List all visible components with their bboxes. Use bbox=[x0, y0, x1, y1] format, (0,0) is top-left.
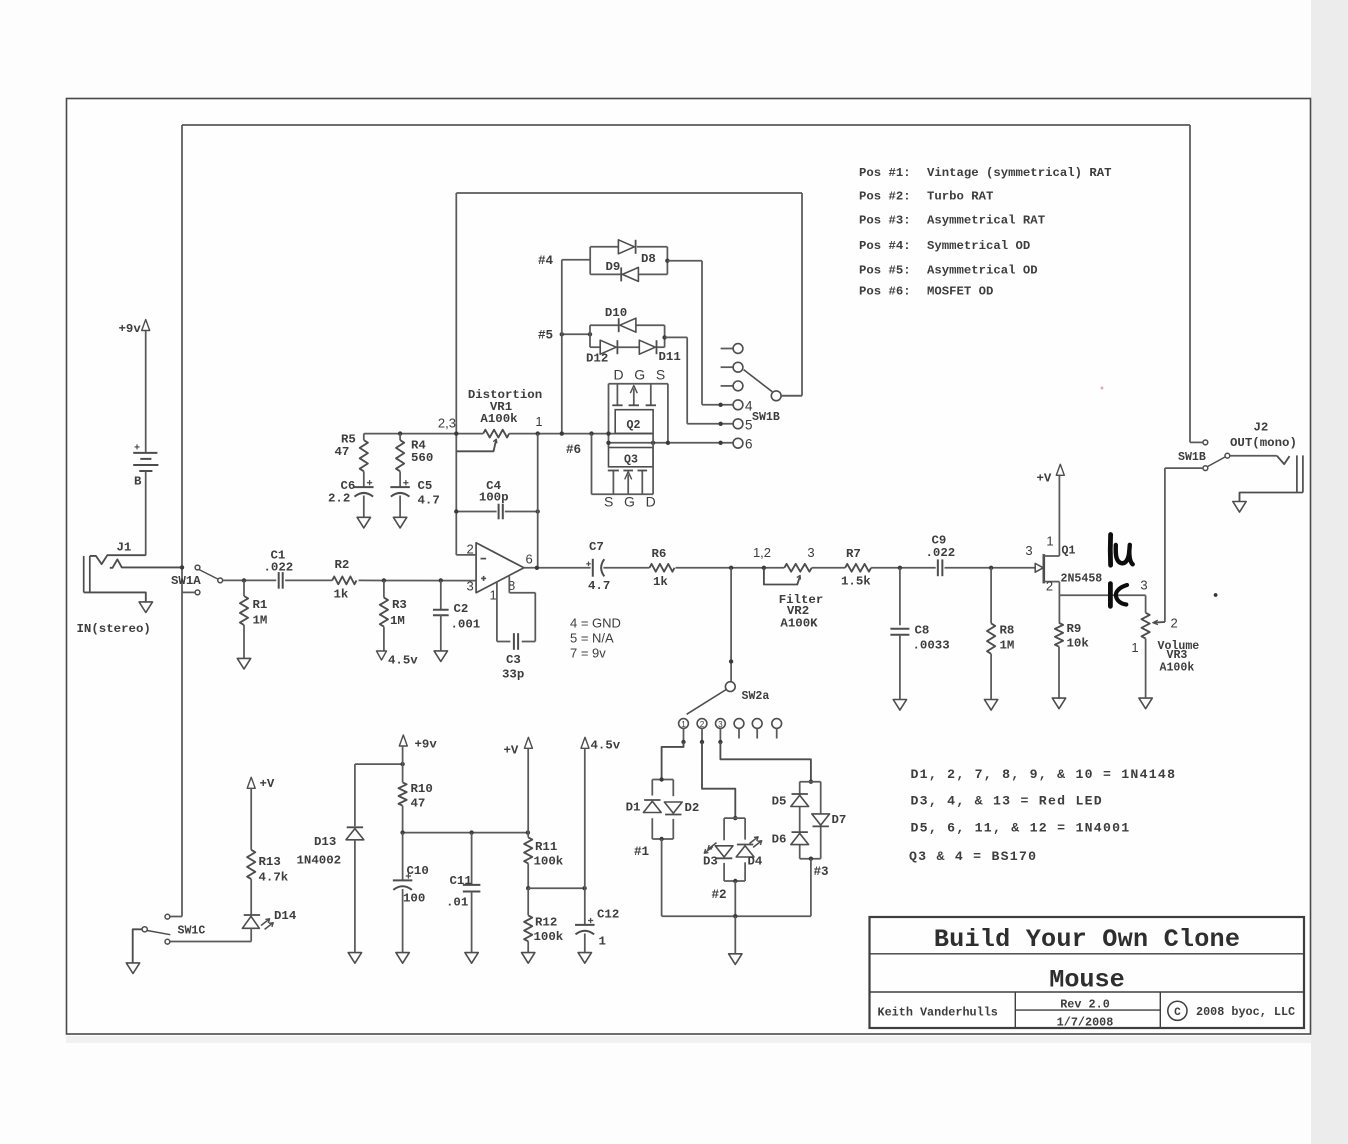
clipper network 3 box bbox=[800, 781, 821, 783]
ground at clipper rail bbox=[729, 954, 742, 965]
svg-text:R1: R1 bbox=[253, 598, 268, 612]
svg-text:D6: D6 bbox=[772, 833, 787, 847]
jack J2 bbox=[1277, 456, 1290, 464]
node Q2 left at node A bbox=[606, 431, 610, 435]
svg-text:1.5k: 1.5k bbox=[841, 575, 871, 589]
node VR1 pin 2,3 bbox=[454, 431, 458, 435]
svg-text:C10: C10 bbox=[407, 864, 429, 878]
wire D14 to SW1C bbox=[250, 928, 252, 941]
svg-text:6: 6 bbox=[526, 552, 533, 567]
svg-text:SW1B: SW1B bbox=[1178, 451, 1206, 464]
node R4 top bbox=[398, 431, 402, 435]
capacitor C9 .022 bbox=[937, 559, 939, 576]
svg-text:1: 1 bbox=[1131, 640, 1138, 655]
node on SW2a branch bbox=[729, 659, 733, 663]
svg-text:1: 1 bbox=[490, 588, 497, 603]
node VR1 pin 1 bbox=[536, 431, 540, 435]
svg-text:Q2: Q2 bbox=[627, 419, 641, 432]
svg-text:.0033: .0033 bbox=[913, 639, 950, 653]
resistor R11 100k bbox=[524, 837, 532, 863]
ground at R12 bbox=[522, 953, 535, 964]
svg-text:OUT(mono): OUT(mono) bbox=[1230, 436, 1297, 450]
svg-text:1M: 1M bbox=[253, 614, 268, 628]
node C8 top bbox=[898, 566, 902, 570]
svg-text:A100K: A100K bbox=[780, 617, 818, 631]
capacitor C1 .022 bbox=[278, 572, 280, 589]
ground at R1 bbox=[237, 658, 250, 669]
svg-text:C: C bbox=[1174, 1007, 1181, 1019]
svg-text:D8: D8 bbox=[641, 252, 656, 266]
svg-text:1: 1 bbox=[599, 935, 606, 949]
svg-text:47: 47 bbox=[411, 797, 426, 811]
capacitor C8 .0033 bbox=[899, 568, 901, 626]
node R3 top bbox=[382, 578, 386, 582]
wire network5 to SW1B-5 bbox=[665, 336, 688, 338]
svg-text:Asymmetrical OD: Asymmetrical OD bbox=[927, 264, 1038, 278]
clipper network 5 box bbox=[589, 325, 591, 347]
node network2 top bbox=[733, 816, 737, 820]
wire to network #4 bbox=[562, 259, 590, 261]
resistor R10 47 bbox=[399, 782, 407, 805]
ground at D13 bbox=[348, 953, 361, 964]
wire Q1 source node bbox=[1059, 594, 1145, 596]
svg-text:C12: C12 bbox=[597, 908, 619, 922]
wire SW1B contact 4 bbox=[702, 404, 733, 406]
wire op-amp node A rail bbox=[364, 433, 483, 435]
page border frame bbox=[67, 99, 1311, 1035]
svg-text:100k: 100k bbox=[534, 930, 564, 944]
node #6 dots bbox=[606, 441, 610, 445]
svg-text:SW1B: SW1B bbox=[752, 411, 780, 424]
svg-text:MOSFET OD: MOSFET OD bbox=[927, 285, 993, 299]
ground at C10 bbox=[396, 953, 409, 964]
svg-text:Pos #2:: Pos #2: bbox=[859, 190, 911, 204]
transistor Q2 bracket bbox=[609, 383, 668, 385]
diode D7 bbox=[812, 814, 830, 825]
node J1 tip junction bbox=[180, 565, 184, 569]
resistor R1 1M bbox=[243, 580, 245, 596]
wire network2 to bottom rail bbox=[734, 881, 736, 916]
svg-text:.001: .001 bbox=[451, 618, 481, 632]
wire op-amp pin1 pin8 loop with C3 bbox=[496, 583, 498, 642]
wire divider node to C12 bbox=[528, 887, 584, 889]
resistor R12 100k bbox=[527, 888, 529, 915]
node +9V bbox=[400, 762, 404, 766]
capacitor C12 1 electrolytic bbox=[584, 748, 586, 925]
diode D1 bbox=[643, 801, 661, 812]
svg-text:10k: 10k bbox=[1067, 637, 1090, 651]
svg-text:.022: .022 bbox=[926, 546, 956, 560]
node SW2a contact1 bbox=[681, 740, 685, 744]
svg-text:100p: 100p bbox=[479, 491, 509, 505]
resistor R13 4.7k bbox=[250, 788, 252, 850]
node network4 right bbox=[665, 259, 669, 263]
svg-text:2,3: 2,3 bbox=[438, 416, 456, 431]
wire rail left vertical to op-amp pin2 bbox=[455, 193, 457, 555]
node C12 top bbox=[582, 886, 586, 890]
wire network4 to SW1B-4 bbox=[667, 260, 702, 262]
svg-text:C7: C7 bbox=[589, 540, 604, 554]
transistor Q2 pins bbox=[616, 384, 618, 406]
node VR2 left 1,2 bbox=[762, 566, 766, 570]
transistor Q3 bottom bracket bbox=[592, 493, 654, 495]
node R11 top bbox=[526, 830, 530, 834]
svg-text:Q3: Q3 bbox=[624, 454, 638, 467]
diode D10 bbox=[620, 318, 636, 332]
svg-text:Q1: Q1 bbox=[1062, 545, 1076, 558]
+V supply at Q1 bbox=[1056, 464, 1064, 475]
ground at R8 bbox=[984, 700, 997, 711]
wire R10 node rail bbox=[403, 832, 528, 834]
svg-text:1,2: 1,2 bbox=[753, 545, 771, 560]
svg-text:6: 6 bbox=[745, 437, 753, 452]
svg-text:C5: C5 bbox=[418, 479, 433, 493]
svg-text:R12: R12 bbox=[535, 916, 557, 930]
+V supply at R13 bbox=[247, 777, 255, 788]
wire contact3 to network3 bbox=[720, 742, 811, 782]
svg-text:IN(stereo): IN(stereo) bbox=[77, 622, 151, 636]
svg-text:.022: .022 bbox=[264, 561, 294, 575]
svg-text:#5: #5 bbox=[538, 329, 553, 343]
svg-text:2N5458: 2N5458 bbox=[1061, 573, 1103, 586]
svg-text:VR3: VR3 bbox=[1167, 649, 1188, 662]
transistor Q1 2N5458 bbox=[1035, 563, 1043, 572]
svg-text:D11: D11 bbox=[659, 350, 681, 364]
svg-text:R11: R11 bbox=[535, 840, 557, 854]
svg-text:+V: +V bbox=[504, 744, 519, 758]
svg-text:D4: D4 bbox=[748, 855, 763, 869]
wire D13 to +9V node bbox=[355, 763, 403, 765]
svg-text:Asymmetrical RAT: Asymmetrical RAT bbox=[927, 214, 1046, 228]
clipper network 4 box bbox=[589, 247, 591, 275]
wire battery negative lead bbox=[145, 471, 147, 555]
node SW2a contact3 bbox=[718, 740, 722, 744]
svg-text:Pos #5:: Pos #5: bbox=[859, 264, 911, 278]
node network3 top bbox=[809, 780, 813, 784]
node network1 bottom bbox=[659, 837, 663, 841]
svg-text:C11: C11 bbox=[450, 874, 472, 888]
diode D12 bbox=[600, 340, 616, 354]
wire rail right vertical to SW1B wiper bbox=[801, 193, 803, 396]
svg-text:SW2a: SW2a bbox=[742, 690, 770, 703]
svg-text:2: 2 bbox=[1171, 616, 1178, 631]
svg-text:+V: +V bbox=[260, 777, 275, 791]
svg-text:1M: 1M bbox=[390, 614, 405, 628]
svg-text:2: 2 bbox=[1046, 579, 1053, 594]
wire contact2 to network2 bbox=[702, 742, 735, 818]
wire J1 sleeve to ground bbox=[84, 592, 146, 602]
svg-text:33p: 33p bbox=[502, 668, 524, 682]
transistor Q3 pins bbox=[612, 471, 614, 495]
potentiometer VR1 Distortion A100k bbox=[483, 430, 509, 438]
svg-text:#3: #3 bbox=[814, 865, 829, 879]
wire bypass left vertical bbox=[181, 125, 183, 917]
svg-text:D14: D14 bbox=[274, 909, 297, 923]
wire contact1 to network1 bbox=[662, 742, 684, 780]
svg-text:D10: D10 bbox=[605, 306, 627, 320]
switch SW2a contacts bbox=[679, 719, 689, 729]
svg-text:#2: #2 bbox=[712, 888, 727, 902]
capacitor C11 .01 bbox=[471, 833, 473, 885]
svg-text:47: 47 bbox=[335, 445, 350, 459]
svg-text:C2: C2 bbox=[454, 602, 469, 616]
wire to VR3 pin3 bbox=[1145, 595, 1147, 613]
svg-text:D3: D3 bbox=[703, 855, 718, 869]
svg-text:1M: 1M bbox=[1000, 639, 1015, 653]
svg-text:4.5v: 4.5v bbox=[591, 739, 621, 753]
switch SW1B rotary contacts bbox=[721, 348, 733, 350]
resistor R4 560 bbox=[399, 434, 401, 441]
capacitor C10 100 electrolytic bbox=[402, 833, 404, 881]
wire battery positive lead bbox=[145, 331, 147, 453]
svg-text:1N4002: 1N4002 bbox=[297, 854, 342, 868]
diode D5 bbox=[791, 795, 809, 806]
svg-text:3: 3 bbox=[1140, 578, 1147, 593]
svg-text:SW1C: SW1C bbox=[178, 925, 206, 938]
switch SW2a wiper bbox=[725, 682, 735, 692]
svg-text:D12: D12 bbox=[586, 352, 608, 366]
ground at VR3 bbox=[1139, 698, 1152, 709]
handwritten dot bbox=[1214, 593, 1218, 597]
resistor R7 1.5k bbox=[845, 564, 871, 572]
svg-text:R8: R8 bbox=[1000, 624, 1015, 638]
capacitor C3 33p bbox=[513, 633, 515, 650]
svg-text:D5, 6, 11, & 12 = 1N4001: D5, 6, 11, & 12 = 1N4001 bbox=[911, 821, 1131, 836]
ground at J1 bbox=[139, 602, 152, 613]
svg-text:D1, 2, 7, 8, 9, & 10 = 1N4148: D1, 2, 7, 8, 9, & 10 = 1N4148 bbox=[911, 767, 1177, 782]
ground at C11 bbox=[465, 953, 478, 964]
svg-text:4.7k: 4.7k bbox=[259, 871, 289, 885]
node R1 top bbox=[242, 578, 246, 582]
node network5 right bbox=[662, 335, 666, 339]
svg-text:#1: #1 bbox=[634, 845, 650, 859]
node network3 bottom bbox=[809, 857, 813, 861]
node R8 top bbox=[989, 566, 993, 570]
wire C4 branch bbox=[456, 511, 496, 513]
svg-text:100: 100 bbox=[403, 892, 425, 906]
capacitor C2 .001 bbox=[440, 580, 442, 609]
svg-text:Pos #3:: Pos #3: bbox=[859, 214, 911, 228]
svg-text:Pos #6:: Pos #6: bbox=[859, 285, 911, 299]
node C4 left bbox=[454, 509, 458, 513]
svg-text:Mouse: Mouse bbox=[1049, 966, 1125, 995]
svg-text:3: 3 bbox=[467, 579, 474, 594]
wire SW1C wiper to ground bbox=[133, 929, 142, 963]
wire SW1B wiper to J2 bbox=[1230, 455, 1277, 457]
switch SW1B wiper bbox=[771, 391, 781, 401]
svg-text:3: 3 bbox=[718, 720, 723, 729]
+V supply at R11 bbox=[524, 737, 532, 748]
svg-text:A100k: A100k bbox=[1160, 662, 1195, 675]
+9V supply arrow bbox=[399, 735, 407, 746]
node SW2a contact2 bbox=[700, 740, 704, 744]
wire network3 to bottom rail bbox=[810, 859, 812, 917]
wire clipper feeder vertical bbox=[561, 260, 563, 434]
node C4 right bbox=[536, 509, 540, 513]
capacitor C5 4.7 bbox=[390, 486, 410, 488]
svg-text:J2: J2 bbox=[1254, 421, 1269, 435]
svg-text:D7: D7 bbox=[832, 813, 847, 827]
svg-text:+9v: +9v bbox=[119, 322, 142, 336]
svg-text:R7: R7 bbox=[846, 547, 861, 561]
stray mark bbox=[1101, 387, 1104, 390]
svg-text:R13: R13 bbox=[259, 855, 281, 869]
node C11 top bbox=[469, 830, 473, 834]
diode D2 bbox=[664, 802, 682, 813]
ground at C12 bbox=[578, 953, 591, 964]
wire to network #5 bbox=[562, 333, 590, 335]
svg-text:1: 1 bbox=[535, 414, 542, 429]
handwritten lu mark bbox=[1108, 535, 1113, 566]
svg-text:R6: R6 bbox=[652, 547, 667, 561]
battery B bbox=[133, 452, 157, 454]
svg-text:#4: #4 bbox=[538, 254, 554, 268]
svg-text:R10: R10 bbox=[411, 782, 433, 796]
title block bbox=[870, 917, 1305, 1028]
transistor Q2 body bbox=[615, 410, 653, 434]
svg-text:1k: 1k bbox=[653, 575, 668, 589]
svg-text:C3: C3 bbox=[506, 653, 521, 667]
svg-text:Pos #1:: Pos #1: bbox=[859, 166, 911, 180]
diode D3 LED bbox=[715, 846, 733, 857]
4.5v supply at C12 bbox=[581, 737, 589, 748]
wire VR1 wiper rail bbox=[456, 192, 802, 194]
svg-text:Build Your Own Clone: Build Your Own Clone bbox=[934, 925, 1240, 954]
ground at SW1C bbox=[126, 963, 139, 974]
capacitor C6 2.2 bbox=[354, 486, 374, 488]
wire VR3 wiper from SW1B bbox=[1164, 468, 1166, 622]
resistor R9 10k bbox=[1058, 595, 1060, 623]
svg-text:2.2: 2.2 bbox=[328, 492, 350, 506]
svg-text:Vintage (symmetrical) RAT: Vintage (symmetrical) RAT bbox=[927, 166, 1112, 180]
svg-text:4.7: 4.7 bbox=[588, 579, 610, 593]
svg-text:560: 560 bbox=[411, 451, 433, 465]
capacitor C7 4.7 electrolytic bbox=[592, 559, 594, 577]
svg-text:SW1A: SW1A bbox=[171, 574, 201, 588]
svg-text:+9v: +9v bbox=[415, 738, 438, 752]
resistor R3 1M bbox=[383, 580, 385, 597]
node network2 bottom bbox=[733, 879, 737, 883]
node R11 bottom bbox=[526, 886, 530, 890]
node bottom rail center bbox=[733, 914, 737, 918]
svg-text:D9: D9 bbox=[606, 260, 621, 274]
svg-text:R9: R9 bbox=[1067, 622, 1082, 636]
svg-text:4.5v: 4.5v bbox=[388, 654, 418, 668]
handwritten capacitor mark bbox=[1108, 584, 1113, 607]
svg-text:.01: .01 bbox=[446, 896, 468, 910]
wire input node to op-amp pin3 bbox=[244, 579, 276, 581]
svg-text:1k: 1k bbox=[334, 588, 349, 602]
wire SW1B contact 5 bbox=[687, 423, 733, 425]
node network1 top bbox=[659, 777, 663, 781]
svg-text:C8: C8 bbox=[915, 624, 930, 638]
svg-text:2008 byoc, LLC: 2008 byoc, LLC bbox=[1196, 1005, 1295, 1019]
title copyright bbox=[1168, 1001, 1187, 1020]
diode D4 LED bbox=[736, 846, 754, 857]
svg-text:D5: D5 bbox=[772, 795, 787, 809]
wire J2 sleeve to ground bbox=[1240, 493, 1297, 502]
+9v supply arrow bbox=[142, 320, 150, 331]
svg-text:D3, 4, & 13 = Red LED: D3, 4, & 13 = Red LED bbox=[911, 794, 1103, 809]
svg-text:3: 3 bbox=[1025, 543, 1032, 558]
potentiometer VR3 Volume A100k bbox=[1142, 613, 1150, 639]
node SW2a branch bbox=[729, 566, 733, 570]
svg-text:1/7/2008: 1/7/2008 bbox=[1057, 1016, 1114, 1030]
ground at C6 bbox=[357, 517, 370, 528]
resistor R5 47 bbox=[363, 434, 365, 441]
svg-text:3: 3 bbox=[807, 545, 814, 560]
op-amp U1 bbox=[476, 543, 524, 593]
svg-text:7 = 9v: 7 = 9v bbox=[570, 646, 606, 661]
svg-text:4 = GND: 4 = GND bbox=[570, 616, 621, 631]
node output C4 vertical bbox=[535, 566, 539, 570]
svg-text:D1: D1 bbox=[626, 801, 641, 815]
svg-text:5 = N/A: 5 = N/A bbox=[570, 631, 614, 646]
clipper network 2 box bbox=[724, 817, 745, 819]
ground at C2 bbox=[434, 651, 447, 662]
svg-text:2: 2 bbox=[700, 720, 705, 729]
node R10 bottom bbox=[400, 830, 404, 834]
diode D6 bbox=[791, 833, 809, 844]
svg-text:1: 1 bbox=[1046, 534, 1053, 549]
ground at J2 bbox=[1233, 502, 1246, 513]
wire bypass loop top bbox=[182, 124, 1190, 126]
resistor R6 1k bbox=[650, 564, 675, 572]
transistor Q3 body bbox=[609, 448, 654, 467]
svg-text:#6: #6 bbox=[566, 443, 581, 457]
diode D14 LED bbox=[244, 914, 260, 916]
svg-text:Turbo RAT: Turbo RAT bbox=[927, 190, 994, 204]
svg-text:Q3 & 4 = BS170: Q3 & 4 = BS170 bbox=[909, 849, 1037, 864]
svg-text:Keith Vanderhulls: Keith Vanderhulls bbox=[878, 1006, 998, 1020]
svg-text:100k: 100k bbox=[534, 855, 564, 869]
svg-text:D13: D13 bbox=[314, 835, 336, 849]
diode D13 1N4002 bbox=[354, 764, 356, 826]
node Q3 left feeder bbox=[589, 431, 593, 435]
capacitor C4 100p bbox=[498, 504, 500, 520]
svg-text:1: 1 bbox=[681, 720, 686, 729]
wire SW1B to VR3 wiper bbox=[1165, 467, 1203, 469]
potentiometer VR2 Filter A100K bbox=[784, 564, 811, 572]
wire rail to ground bbox=[734, 916, 736, 954]
ground at R9 bbox=[1052, 698, 1065, 709]
svg-text:B: B bbox=[134, 475, 142, 489]
svg-text:4.7: 4.7 bbox=[418, 494, 440, 508]
resistor R8 1M bbox=[990, 568, 992, 624]
wire SW2a branch vertical bbox=[730, 568, 732, 682]
diode D11 bbox=[639, 340, 655, 354]
resistor R2 1k bbox=[332, 577, 356, 585]
svg-text:S G D: S G D bbox=[604, 494, 659, 510]
switch SW1B output bbox=[1190, 441, 1203, 443]
ground at C8 bbox=[893, 700, 906, 711]
clipper network 1 box bbox=[652, 779, 673, 781]
svg-text:Symmetrical OD: Symmetrical OD bbox=[927, 239, 1030, 253]
4.5v reference at R3 bbox=[377, 651, 387, 660]
diode D8 bbox=[618, 240, 634, 254]
svg-text:Rev 2.0: Rev 2.0 bbox=[1060, 998, 1110, 1012]
wire bypass right vertical bbox=[1189, 125, 1191, 442]
wire network1 to bottom rail bbox=[661, 839, 663, 916]
node feeder at node A bbox=[560, 431, 564, 435]
svg-text:R2: R2 bbox=[335, 558, 350, 572]
wire SW1A wiper to input node bbox=[223, 579, 244, 581]
wire clipper bottom rail bbox=[662, 915, 811, 917]
svg-text:R3: R3 bbox=[392, 598, 407, 612]
svg-text:J1: J1 bbox=[117, 541, 132, 555]
diode D9 bbox=[622, 267, 638, 281]
wire op-amp pin2 bbox=[456, 554, 476, 556]
